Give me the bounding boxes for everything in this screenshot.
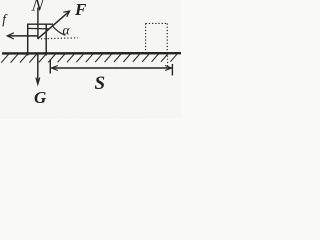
ground line: [2, 52, 181, 55]
distance S dimension arrow: [50, 59, 172, 75]
weight G arrow: [36, 55, 40, 85]
applied force F arrow: [38, 11, 70, 39]
dotted horizontal reference line: [41, 38, 78, 39]
angle arc: [53, 26, 66, 35]
force N arrow shaft: [37, 8, 39, 39]
dotted drop line at square right: [167, 56, 169, 67]
block top second stroke: [27, 27, 48, 30]
dashed square (final position): [146, 23, 168, 52]
ground hatching: [1, 53, 178, 62]
block: [27, 24, 53, 55]
friction f arrow: [7, 33, 38, 39]
